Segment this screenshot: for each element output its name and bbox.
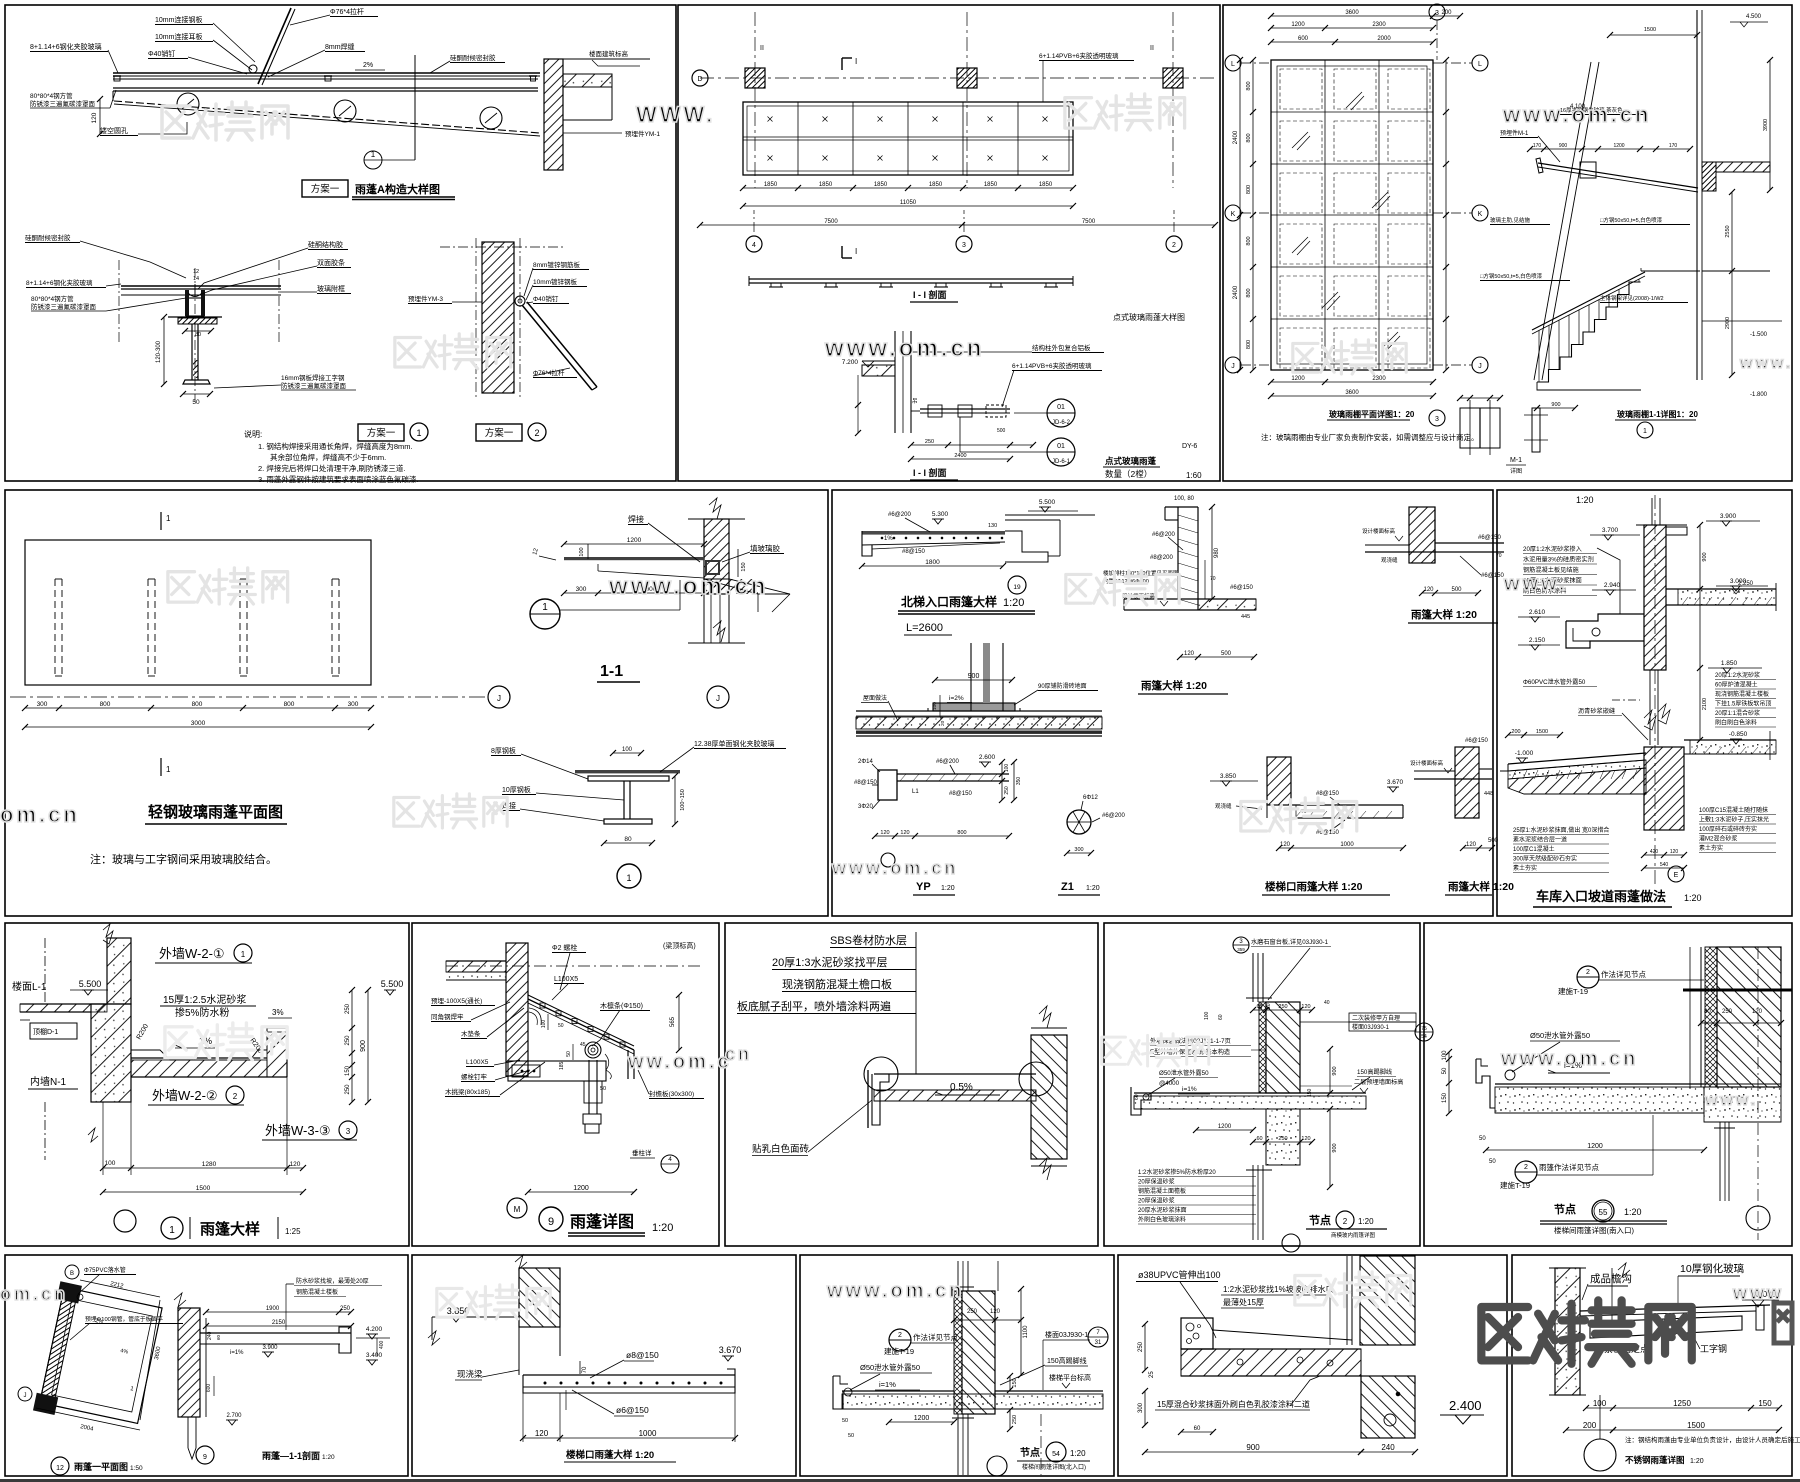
svg-text:DY-6: DY-6 — [1182, 443, 1197, 450]
svg-text:50: 50 — [192, 399, 200, 406]
svg-text:B: B — [70, 1271, 74, 1277]
svg-text:1: 1 — [416, 428, 421, 438]
svg-text:60厚炉渣混凝土: 60厚炉渣混凝土 — [1715, 681, 1758, 689]
svg-text:01: 01 — [1057, 404, 1065, 411]
r1p2 horizontal axis — [700, 77, 1215, 79]
svg-text:50: 50 — [1479, 1136, 1486, 1142]
svg-text:3.400: 3.400 — [366, 1352, 383, 1359]
r3p4 window above — [1252, 953, 1254, 1002]
svg-text:80: 80 — [195, 332, 201, 338]
svg-text:灌M2混合砂浆: 灌M2混合砂浆 — [1699, 835, 1737, 843]
r1p2 glass fixing dots — [768, 117, 773, 122]
svg-text:www.om.cn: www.om.cn — [824, 335, 984, 362]
svg-text:1.850: 1.850 — [1721, 660, 1738, 667]
svg-text:300: 300 — [1138, 1402, 1144, 1413]
r4p1 tilted plan — [33, 1281, 163, 1432]
svg-text:1000: 1000 — [1340, 842, 1354, 848]
svg-text:J: J — [497, 694, 501, 703]
r3p4 slab — [1134, 1092, 1366, 1094]
svg-text:12.38厚单面钢化夹胶玻璃: 12.38厚单面钢化夹胶玻璃 — [694, 739, 775, 748]
svg-text:填玻璃胶: 填玻璃胶 — [750, 543, 780, 553]
r4p4 dims — [1144, 1324, 1146, 1370]
r2p2 YP detail — [878, 770, 897, 800]
svg-text:3.670: 3.670 — [719, 1345, 742, 1355]
svg-text:20厚保温砂浆: 20厚保温砂浆 — [1138, 1197, 1175, 1205]
svg-text:作法详见节点: 作法详见节点 — [1601, 969, 1646, 979]
svg-text:现浇钢筋混凝土楼板: 现浇钢筋混凝土楼板 — [1715, 690, 1769, 698]
svg-text:100: 100 — [622, 747, 633, 753]
svg-text:1:20: 1:20 — [1086, 885, 1100, 892]
svg-text:外刷白色玻璃涂料: 外刷白色玻璃涂料 — [1138, 1216, 1186, 1224]
svg-text:www.om.cn: www.om.cn — [831, 858, 958, 878]
svg-text:钢筋混凝土面檐板: 钢筋混凝土面檐板 — [1138, 1187, 1186, 1195]
svg-text:-1.500: -1.500 — [1750, 332, 1768, 338]
svg-text:3. 雨蓬外露钢件按建筑要求表面喷涂蓝色氟碳漆.: 3. 雨蓬外露钢件按建筑要求表面喷涂蓝色氟碳漆. — [258, 474, 418, 484]
svg-text:I: I — [855, 247, 857, 256]
svg-text:1:20: 1:20 — [1358, 1217, 1374, 1226]
svg-text:楼梯口雨篷大样 1:20: 楼梯口雨篷大样 1:20 — [1265, 880, 1363, 893]
svg-text:75: 75 — [1421, 1026, 1427, 1032]
svg-text:外墙W-2-①: 外墙W-2-① — [159, 946, 225, 961]
svg-text:600: 600 — [1298, 36, 1309, 42]
svg-text:45: 45 — [580, 1042, 586, 1048]
svg-text:L100X5: L100X5 — [466, 1059, 489, 1066]
svg-text:二层预埋墙面标高: 二层预埋墙面标高 — [1354, 1078, 1404, 1086]
svg-text:www.om.cn: www.om.cn — [1500, 1048, 1638, 1070]
svg-text:素土夯实: 素土夯实 — [1513, 864, 1537, 872]
svg-text:观浇缝: 观浇缝 — [1215, 802, 1232, 810]
svg-text:玻璃主肋,见结施: 玻璃主肋,见结施 — [1490, 216, 1531, 224]
svg-text:4: 4 — [752, 242, 756, 249]
svg-text:注：玻璃与工字钢间采用玻璃胶结合。: 注：玻璃与工字钢间采用玻璃胶结合。 — [90, 852, 277, 866]
svg-text:20厚1:2水泥砂浆掺入: 20厚1:2水泥砂浆掺入 — [1523, 545, 1582, 553]
svg-text:1:20: 1:20 — [322, 1454, 335, 1461]
svg-text:结构柱外包复合铝板: 结构柱外包复合铝板 — [1032, 343, 1091, 352]
svg-text:3000: 3000 — [191, 720, 206, 727]
svg-text:现浇梁: 现浇梁 — [457, 1369, 483, 1379]
svg-text:11050: 11050 — [900, 200, 917, 206]
r4p3 gutter left — [833, 1376, 855, 1409]
r4p3 dims — [1020, 1289, 1022, 1375]
svg-text:内墙N-1: 内墙N-1 — [30, 1075, 67, 1088]
svg-text:SBS卷材防水层: SBS卷材防水层 — [830, 933, 907, 947]
svg-text:详图: 详图 — [1510, 467, 1522, 475]
svg-text:雨篷大样 1:20: 雨篷大样 1:20 — [1411, 608, 1477, 621]
svg-text:木檩条(Φ150): 木檩条(Φ150) — [600, 1001, 643, 1010]
svg-text:50: 50 — [1442, 1067, 1448, 1074]
svg-text:主体钢架详见(2008)-1/W2: 主体钢架详见(2008)-1/W2 — [1600, 294, 1664, 302]
svg-text:19: 19 — [1013, 584, 1021, 591]
svg-text:楼梯间雨篷详图(南入口): 楼梯间雨篷详图(南入口) — [1554, 1225, 1634, 1235]
svg-text:800: 800 — [100, 701, 111, 708]
r2p3 ramp — [1508, 753, 1646, 764]
svg-text:2.600: 2.600 — [979, 754, 996, 761]
svg-text:3Φ20: 3Φ20 — [858, 804, 873, 810]
r2p1 axis line J — [10, 696, 488, 698]
svg-text:800: 800 — [284, 701, 295, 708]
svg-text:60: 60 — [1218, 1014, 1224, 1020]
svg-text:楼面L-1: 楼面L-1 — [12, 980, 47, 993]
r2p2 mid labels dims — [935, 679, 1012, 681]
r2p1 detail 1-1 wall — [704, 519, 729, 594]
svg-text:玻璃附框: 玻璃附框 — [317, 284, 345, 293]
svg-text:20厚保温砂浆: 20厚保温砂浆 — [1138, 1178, 1175, 1186]
r2p2 mid floor platform — [933, 703, 1015, 711]
svg-text:300: 300 — [1074, 847, 1083, 853]
r1p2 lower detail dims — [857, 375, 859, 433]
svg-text:250: 250 — [345, 1003, 351, 1014]
r2p3 left canopy gutter — [1566, 614, 1644, 621]
svg-text:同角钢焊牢: 同角钢焊牢 — [431, 1012, 464, 1021]
svg-text:500: 500 — [1221, 651, 1232, 657]
svg-text:25: 25 — [1149, 1371, 1155, 1378]
svg-text:0.5%: 0.5% — [950, 1082, 973, 1093]
r4p1 section dims — [206, 1311, 351, 1313]
svg-text:1:20: 1:20 — [1070, 1449, 1086, 1458]
svg-text:2900: 2900 — [1725, 317, 1731, 329]
svg-text:2: 2 — [1524, 1164, 1528, 1171]
r1p3 stair steps — [1537, 282, 1641, 382]
svg-text:1%: 1% — [884, 536, 893, 542]
svg-text:120: 120 — [91, 112, 98, 123]
svg-text:250: 250 — [1012, 1415, 1018, 1424]
svg-text:方案一: 方案一 — [485, 427, 514, 439]
svg-text:200: 200 — [1511, 729, 1520, 735]
svg-text:ø6@150: ø6@150 — [616, 1405, 649, 1415]
r3p1 circle mark — [114, 1210, 136, 1232]
svg-text:ø38UPVC管伸出100: ø38UPVC管伸出100 — [1138, 1269, 1221, 1280]
svg-text:55: 55 — [1599, 1208, 1608, 1217]
r1p1 title block — [302, 180, 348, 197]
svg-text:素土夯实: 素土夯实 — [1699, 844, 1723, 852]
r3p4 right boxed note — [1349, 1013, 1416, 1022]
light watermarks omw — [162, 102, 288, 140]
r2p3 pipes mid — [1649, 670, 1651, 745]
svg-text:(梁顶标高): (梁顶标高) — [663, 941, 696, 950]
svg-text:250: 250 — [1004, 786, 1010, 795]
svg-text:300: 300 — [576, 586, 587, 593]
svg-text:II: II — [760, 45, 764, 52]
svg-text:玻璃雨棚1-1详图1：20: 玻璃雨棚1-1详图1：20 — [1617, 409, 1698, 419]
svg-text:70: 70 — [1496, 553, 1502, 559]
svg-text:□方钢50x50,t=5,白色喷漆: □方钢50x50,t=5,白色喷漆 — [1600, 216, 1663, 224]
svg-text:800: 800 — [1246, 236, 1252, 245]
svg-text:50: 50 — [558, 1023, 564, 1029]
svg-text:Φ76*4拉杆: Φ76*4拉杆 — [330, 7, 364, 16]
r3p4 wm circle 3-359 — [1233, 937, 1249, 953]
r1p3 M-1 details — [1460, 408, 1500, 448]
r4p2 level 3850 — [450, 1316, 462, 1318]
svg-text:#6@150: #6@150 — [1316, 830, 1339, 836]
svg-text:屋面做法: 屋面做法 — [863, 694, 887, 702]
svg-text:硅酮耐候密封胶: 硅酮耐候密封胶 — [25, 233, 71, 242]
svg-text:www.: www. — [1739, 355, 1793, 372]
svg-text:150: 150 — [1307, 1088, 1313, 1097]
svg-text:商模玻内雨篷详图: 商模玻内雨篷详图 — [1331, 1231, 1376, 1239]
svg-text:建施T-19: 建施T-19 — [1558, 986, 1588, 996]
svg-text:1: 1 — [542, 602, 548, 613]
svg-text:250: 250 — [345, 1084, 351, 1095]
svg-text:1:2水泥砂浆找1%坡坡向排水口: 1:2水泥砂浆找1%坡坡向排水口 — [1223, 1284, 1334, 1294]
r3p5 window below — [1719, 1122, 1721, 1201]
svg-text:水泥用量3%的硅质密实剂: 水泥用量3%的硅质密实剂 — [1523, 556, 1594, 564]
svg-text:-1.000: -1.000 — [1515, 750, 1534, 757]
r2p2 d1 right wall — [1005, 514, 1095, 516]
svg-text:900: 900 — [1559, 143, 1568, 149]
svg-text:2.610: 2.610 — [1529, 609, 1546, 616]
r4p1 plan dims — [80, 1280, 160, 1297]
svg-text:120: 120 — [1752, 1009, 1763, 1015]
svg-text:900: 900 — [1702, 552, 1708, 561]
svg-text:1: 1 — [371, 150, 376, 159]
r1p1 detail1 I-beam — [168, 316, 222, 318]
svg-text:刷白刷白色涂料: 刷白刷白色涂料 — [1715, 719, 1757, 727]
svg-text:楼面03J930-1: 楼面03J930-1 — [1352, 1023, 1390, 1031]
svg-text:楼面03J930-1: 楼面03J930-1 — [1045, 1330, 1088, 1339]
svg-text:1: 1 — [241, 950, 246, 959]
svg-text:3.900: 3.900 — [1720, 513, 1737, 520]
svg-text:20厚水泥砂浆抹面: 20厚水泥砂浆抹面 — [1138, 1206, 1187, 1214]
r1p3 long section diagonal — [1534, 62, 1591, 380]
svg-text:I: I — [855, 57, 857, 66]
svg-text:5.500: 5.500 — [79, 979, 102, 989]
svg-text:1: 1 — [169, 1225, 175, 1236]
svg-text:2: 2 — [898, 1332, 902, 1339]
r1p1 detail1 glass lines — [121, 285, 281, 287]
svg-text:雨蓬—1-1剖面: 雨蓬—1-1剖面 — [262, 1450, 320, 1461]
svg-text:预埋Φ100钢管，管底于板面平: 预埋Φ100钢管，管底于板面平 — [85, 1315, 163, 1323]
svg-text:素水泥浆结合层一道: 素水泥浆结合层一道 — [1513, 836, 1567, 844]
r3p5 gutter left — [1476, 1059, 1495, 1108]
svg-text:150高踢脚线: 150高踢脚线 — [1357, 1068, 1392, 1076]
r1p3 axis circles — [1225, 55, 1241, 71]
svg-text:100: 100 — [579, 547, 585, 556]
r1p1 weld circles on slope — [177, 93, 199, 115]
r2p1 detail 1-1 slab right — [704, 579, 790, 594]
svg-text:100厚C15混凝土随打随抹: 100厚C15混凝土随打随抹 — [1699, 806, 1768, 814]
svg-text:4.500: 4.500 — [1746, 14, 1762, 20]
svg-text:300: 300 — [348, 701, 359, 708]
svg-text:1:20: 1:20 — [652, 1222, 673, 1234]
svg-text:250: 250 — [1138, 1341, 1144, 1352]
r2p1 dims — [25, 707, 371, 709]
r1p3 1-1 dims top — [1530, 148, 1690, 150]
r1p3 plan dims left right — [1252, 60, 1254, 370]
svg-text:楼梯间雨篷详图(北入口): 楼梯间雨篷详图(北入口) — [1022, 1463, 1086, 1471]
svg-text:10厚钢板: 10厚钢板 — [502, 785, 531, 794]
svg-text:565: 565 — [670, 1016, 676, 1027]
svg-text:400: 400 — [379, 1340, 385, 1349]
svg-text:M: M — [514, 1205, 521, 1214]
svg-text:80*80*4钢方管: 80*80*4钢方管 — [30, 91, 73, 100]
svg-text:80*80*4钢方管: 80*80*4钢方管 — [31, 294, 74, 303]
svg-text:50: 50 — [1489, 1159, 1496, 1165]
svg-text:250: 250 — [925, 439, 934, 445]
r2p2 Z1 detail — [1067, 810, 1091, 834]
svg-text:2: 2 — [1586, 969, 1590, 976]
svg-text:不锈钢雨蓬详图: 不锈钢雨蓬详图 — [1625, 1455, 1685, 1465]
svg-text:YP: YP — [916, 881, 931, 893]
r1p1 detail2 wall — [482, 242, 514, 393]
r3p3 detail circles — [864, 1057, 898, 1091]
svg-text:500: 500 — [1488, 838, 1499, 844]
svg-text:预埋件YM-3: 预埋件YM-3 — [408, 294, 443, 303]
r4p4 canopy slab — [1213, 1330, 1352, 1340]
bottom sheet edge band — [0, 1479, 1800, 1482]
r3p1 wall L-shape hatched — [107, 938, 131, 1004]
svg-text:2.940: 2.940 — [1604, 582, 1621, 589]
svg-text:1-1: 1-1 — [600, 663, 623, 680]
svg-text:2550: 2550 — [1725, 225, 1731, 237]
r2p3 right slab — [1666, 588, 1776, 590]
svg-text:6Φ12: 6Φ12 — [1083, 795, 1098, 801]
svg-text:130: 130 — [988, 523, 997, 529]
svg-text:80: 80 — [1704, 1009, 1711, 1015]
svg-text:I - I 剖面: I - I 剖面 — [913, 467, 947, 478]
svg-text:玻璃雨棚平面详图1：20: 玻璃雨棚平面详图1：20 — [1329, 409, 1415, 419]
r2p2 d8 far right — [1455, 747, 1479, 818]
svg-text:双面胶条: 双面胶条 — [317, 258, 345, 267]
r4p2 dims — [523, 1437, 735, 1439]
svg-text:15厚1:2.5水泥砂浆: 15厚1:2.5水泥砂浆 — [163, 993, 246, 1006]
r4p1 plan title — [51, 1457, 69, 1475]
svg-text:8mm镀锌钢筋板: 8mm镀锌钢筋板 — [533, 260, 580, 269]
svg-text:8厚钢板: 8厚钢板 — [491, 746, 516, 755]
svg-text:建施T-19: 建施T-19 — [884, 1346, 914, 1356]
svg-text:#6@150: #6@150 — [1481, 573, 1504, 579]
svg-text:100: 100 — [1204, 1011, 1210, 1020]
r2p3 dims — [1699, 525, 1701, 740]
r2p3 bottom wall — [1644, 747, 1684, 830]
svg-text:www.: www. — [1503, 573, 1567, 595]
svg-text:楼面建筑标高: 楼面建筑标高 — [589, 49, 629, 58]
svg-text:300厚天然级配砂石夯实: 300厚天然级配砂石夯实 — [1513, 855, 1577, 863]
svg-text:1:60: 1:60 — [1186, 471, 1202, 480]
svg-text:1200: 1200 — [914, 1415, 930, 1422]
svg-text:1:20: 1:20 — [1684, 893, 1702, 903]
svg-text:8mm焊缝: 8mm焊缝 — [325, 42, 355, 51]
svg-text:2%: 2% — [363, 62, 373, 69]
svg-text:板底腻子刮平，喷外墙涂料两遍: 板底腻子刮平，喷外墙涂料两遍 — [737, 999, 891, 1013]
svg-text:1850: 1850 — [819, 182, 833, 188]
svg-text:120: 120 — [535, 1429, 549, 1438]
svg-text:120: 120 — [1301, 1004, 1310, 1010]
svg-text:观浇缝: 观浇缝 — [1381, 556, 1398, 564]
svg-text:雨蓬一平面图: 雨蓬一平面图 — [74, 1461, 128, 1472]
svg-text:5.500: 5.500 — [381, 979, 404, 989]
r3p2 beam and hanger — [508, 1061, 606, 1081]
r4p1 section pile — [187, 1417, 189, 1448]
svg-text:9: 9 — [203, 1454, 207, 1461]
svg-text:1500: 1500 — [1536, 729, 1548, 735]
svg-text:注：玻璃雨棚由专业厂家负责制作安装，如需调整应与设计商定。: 注：玻璃雨棚由专业厂家负责制作安装，如需调整应与设计商定。 — [1261, 432, 1479, 442]
svg-text:54: 54 — [1421, 1034, 1427, 1040]
svg-text:L: L — [1478, 61, 1482, 68]
svg-text:雨篷大样 1:20: 雨篷大样 1:20 — [1141, 679, 1207, 692]
svg-text:5.500: 5.500 — [1039, 499, 1056, 506]
r2p3 axis dashdot — [1654, 495, 1656, 885]
svg-text:12: 12 — [193, 269, 199, 275]
svg-text:1:20: 1:20 — [1690, 1458, 1704, 1465]
svg-text:#6@200: #6@200 — [1152, 532, 1175, 538]
svg-text:3: 3 — [1435, 10, 1439, 17]
svg-text:448: 448 — [1484, 791, 1493, 797]
svg-text:点式玻璃雨蓬: 点式玻璃雨蓬 — [1105, 456, 1157, 466]
r4p4 canopy upturn — [1181, 1318, 1213, 1349]
svg-text:900: 900 — [1246, 1443, 1260, 1452]
svg-text:D: D — [697, 76, 702, 83]
svg-text:1: 1 — [166, 514, 171, 523]
svg-text:雨篷大样: 雨篷大样 — [200, 1220, 260, 1238]
svg-text:□方钢50x50,t=5,白色喷漆: □方钢50x50,t=5,白色喷漆 — [1480, 272, 1543, 280]
svg-text:1. 钢结构焊接采用通长角焊，焊缝高度为8mm.: 1. 钢结构焊接采用通长角焊，焊缝高度为8mm. — [258, 441, 413, 451]
svg-text:01: 01 — [1057, 443, 1065, 450]
svg-text:L: L — [1231, 61, 1235, 68]
svg-text:2Φ14: 2Φ14 — [858, 759, 873, 765]
r2p2 mid floor band — [856, 710, 1102, 712]
svg-text:WWW.: WWW. — [636, 102, 715, 127]
svg-text:Ø50泄水管外露50: Ø50泄水管外露50 — [1159, 1069, 1209, 1077]
svg-text:成品檐沟: 成品檐沟 — [1590, 1272, 1632, 1285]
svg-text:3600: 3600 — [1345, 10, 1359, 16]
r1p1 top canopy glass — [113, 72, 540, 74]
svg-text:防锈漆三遍氟碳漆罩面: 防锈漆三遍氟碳漆罩面 — [31, 302, 97, 311]
svg-text:2: 2 — [1172, 242, 1176, 249]
r1p3 stair section canopy — [1538, 163, 1698, 188]
svg-text:#6@150: #6@150 — [1465, 738, 1488, 744]
r2p1 section mark 1 top — [160, 512, 162, 530]
svg-text:作法详见节点: 作法详见节点 — [913, 1332, 958, 1342]
svg-text:贴乳白色面砖: 贴乳白色面砖 — [752, 1143, 810, 1155]
svg-text:6+1.14PVB+6夹胶透明玻璃: 6+1.14PVB+6夹胶透明玻璃 — [1012, 361, 1092, 370]
svg-text:工字钢: 工字钢 — [1700, 1343, 1727, 1354]
svg-text:100厚碎石或碎砖夯实: 100厚碎石或碎砖夯实 — [1699, 825, 1757, 833]
r3p2 roof slope — [528, 999, 634, 1050]
svg-text:i=1%: i=1% — [1182, 1086, 1197, 1093]
svg-text:J: J — [1231, 363, 1235, 370]
svg-text:www: www — [1732, 1283, 1784, 1303]
svg-text:封檐板(30x300): 封檐板(30x300) — [649, 1089, 694, 1098]
svg-text:900: 900 — [1551, 402, 1560, 408]
r3p5 circle br — [1746, 1206, 1770, 1230]
svg-text:15厚混合砂浆抹面外刷白色乳胶漆涂料二道: 15厚混合砂浆抹面外刷白色乳胶漆涂料二道 — [1157, 1399, 1310, 1409]
svg-text:2000: 2000 — [1377, 36, 1391, 42]
svg-text:木挑梁(80x185): 木挑梁(80x185) — [445, 1087, 490, 1096]
r1p1 right wall hatched — [544, 59, 563, 170]
svg-text:120: 120 — [1301, 1136, 1310, 1142]
svg-text:#8@150: #8@150 — [949, 791, 972, 797]
svg-text:1850: 1850 — [874, 182, 888, 188]
svg-text:4: 4 — [668, 1156, 672, 1163]
r1p2 lower wall section — [894, 331, 896, 433]
svg-text:Φ75PVC落水管: Φ75PVC落水管 — [84, 1266, 126, 1274]
svg-text:1: 1 — [626, 873, 631, 883]
svg-text:#8@150: #8@150 — [902, 549, 925, 555]
svg-text:2.150: 2.150 — [1529, 637, 1546, 644]
r3p4 central wall — [1266, 1002, 1300, 1093]
svg-text:2150: 2150 — [272, 1320, 286, 1326]
svg-text:1900: 1900 — [266, 1306, 280, 1312]
svg-text:60: 60 — [1194, 1426, 1201, 1432]
svg-text:3%: 3% — [272, 1008, 284, 1017]
svg-text:建施T-19: 建施T-19 — [1500, 1180, 1530, 1190]
r2p1 dashed beam pairs — [54, 579, 56, 676]
svg-text:25厚1:水泥砂浆抹面,做出 宽0深措合: 25厚1:水泥砂浆抹面,做出 宽0深措合 — [1513, 826, 1609, 834]
r4p3 below — [957, 1414, 959, 1475]
svg-text:K: K — [1478, 211, 1483, 218]
r1p2 canopy plan rect — [743, 102, 1073, 175]
svg-text:800: 800 — [1246, 81, 1252, 90]
